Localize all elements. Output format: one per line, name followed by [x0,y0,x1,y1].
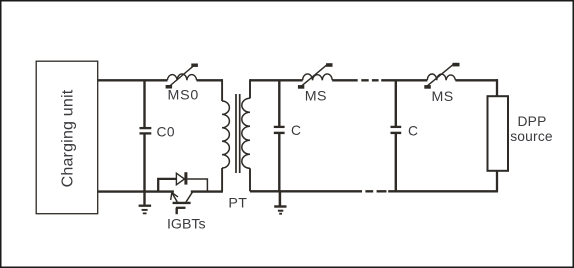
transistor IGBT Q1 [167,192,206,233]
ground (secondary) [274,191,286,213]
wire diode loop right [187,179,207,191]
wire diode loop left [158,179,176,192]
svg-text:source: source [510,129,553,144]
switch MS0 [166,64,199,104]
svg-text:C0: C0 [157,124,175,139]
svg-text:PT: PT [228,196,247,212]
wire top rail PT to MS [250,79,303,81]
svg-text:IGBTs: IGBTs [167,216,206,232]
capacitor C (second) [391,80,419,191]
wire DPP bottom stub [496,171,498,192]
wire bottom dashed segment [365,190,386,192]
switch MS (second) [424,63,459,105]
wire top rail left [98,79,168,81]
svg-text:MS0: MS0 [168,88,200,104]
svg-text:Charging unit: Charging unit [60,89,77,187]
svg-text:C: C [408,123,418,138]
svg-text:MS: MS [432,89,454,105]
wire bottom rail right of IGBT [191,190,223,192]
capacitor C (first) [274,80,301,191]
wire top rail MS to dashes [332,79,358,81]
capacitor C0 [140,80,175,191]
switch MS (first) [298,63,333,104]
wire DPP top stub [496,79,498,96]
diode D1 [176,172,187,185]
wire top dashed segment [361,79,378,81]
wire top rail MS0 to PT [197,79,223,81]
wire top rail dashes to MS [381,79,427,81]
DPP source [488,96,553,171]
ground [139,192,152,214]
wire bottom rail left [98,190,174,192]
svg-text:C: C [291,123,301,138]
wire bottom rail to DPP [388,190,498,192]
svg-text:DPP: DPP [518,114,547,129]
svg-text:MS: MS [305,88,327,104]
charging unit box [36,61,97,214]
wire bottom rail secondary [250,190,362,192]
transformer PT [222,79,250,212]
wire top rail MS to DPP [455,79,498,81]
